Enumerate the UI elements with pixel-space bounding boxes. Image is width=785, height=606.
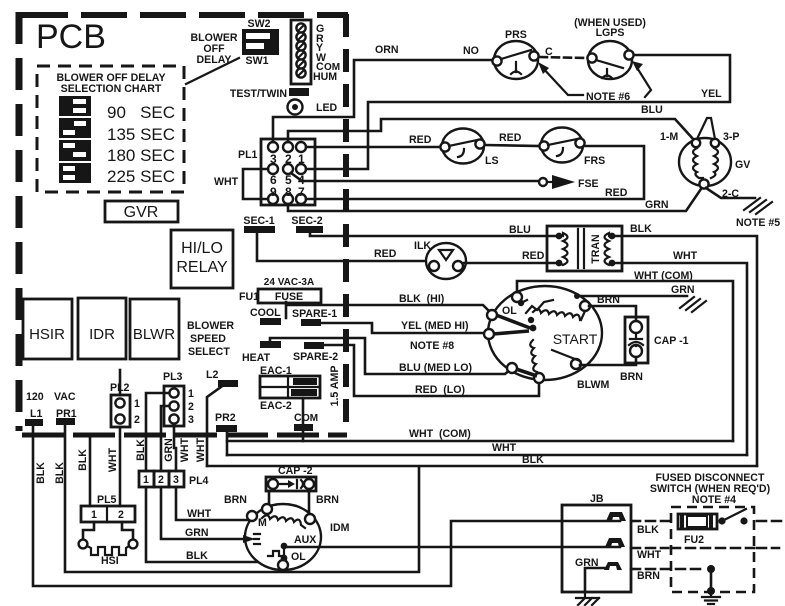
svg-text:HSI: HSI: [101, 555, 119, 567]
svg-text:BLU: BLU: [509, 224, 531, 236]
relay HSIR box: [23, 299, 72, 359]
dip switch 225: [59, 163, 91, 183]
svg-text:SW2: SW2: [248, 18, 271, 30]
chassis ground NOTE #5: [736, 198, 780, 229]
blower motor BLWM: [484, 286, 602, 383]
svg-text:LED: LED: [316, 102, 338, 114]
wire RED pin7 from FRS: [306, 146, 644, 199]
fuse FU2: [678, 514, 717, 546]
transformer TRAN: [547, 226, 622, 271]
wire BRN CAP-1 to motor: [580, 357, 636, 365]
svg-text:RED (LO): RED (LO): [415, 384, 465, 396]
wire BLK PL3-1 to PL4-1: [146, 393, 169, 471]
svg-text:HEAT: HEAT: [242, 352, 271, 364]
fused disconnect dashed box: [671, 507, 754, 592]
wire BRN CAP-2 right to IDM: [308, 491, 311, 515]
chart time labels: [107, 103, 175, 186]
svg-text:BLOWER: BLOWER: [187, 320, 234, 332]
wire BRN motor to CAP-1: [589, 306, 636, 322]
wire RED LS to FRS: [485, 145, 540, 146]
relay IDR box: [78, 298, 126, 359]
wire FSE pin5: [291, 173, 538, 181]
wire GRN motor frame to chassis ground: [577, 295, 687, 298]
dip switch 135: [59, 118, 91, 138]
wire YEL pin4 from LGPS: [306, 55, 730, 169]
wire BLK L2 to TRAN primary: [207, 465, 757, 468]
wire RED ILK to TRAN: [464, 262, 556, 265]
wire WHT PR2 to TRAN secondary: [227, 454, 747, 457]
svg-text:BLK: BLK: [77, 449, 89, 471]
svg-text:L1: L1: [30, 408, 42, 420]
svg-text:CAP -2: CAP -2: [278, 465, 313, 477]
svg-text:2: 2: [118, 509, 124, 521]
disconnect switch contacts: [718, 509, 747, 525]
svg-text:90 SEC: 90 SEC: [107, 103, 175, 122]
wire WHT (COM) motor to right nest: [517, 281, 733, 441]
svg-text:PL5: PL5: [97, 494, 117, 506]
svg-text:START: START: [553, 331, 598, 347]
svg-text:WHT (COM): WHT (COM): [409, 428, 471, 440]
terminal SEC-1: [243, 215, 275, 233]
svg-text:WHT: WHT: [673, 250, 698, 262]
terminal SPARE-1: [292, 308, 337, 326]
svg-text:SPEED: SPEED: [190, 333, 226, 345]
limit switch LS: [440, 129, 498, 168]
svg-text:3: 3: [188, 414, 194, 426]
svg-text:JB: JB: [590, 493, 604, 505]
cable clamp 1: [606, 512, 626, 521]
wire 2-C to chassis ground: [706, 188, 755, 198]
svg-text:WHT: WHT: [107, 447, 119, 472]
FSE sensor circle and arrow: [539, 175, 599, 190]
svg-text:WHT: WHT: [214, 176, 239, 188]
wire WHT TRAN secondary right nest: [616, 263, 747, 455]
LED: [288, 100, 338, 115]
thermostat terminal strip: [291, 20, 340, 84]
wire BRN CAP-2 left to IDM: [268, 491, 271, 506]
svg-text:BLK: BLK: [54, 462, 66, 484]
svg-text:PL3: PL3: [163, 371, 183, 383]
wire WHT (COM) bus line: [227, 440, 733, 443]
svg-text:FUSE: FUSE: [275, 291, 303, 303]
svg-text:WHT (COM): WHT (COM): [634, 270, 693, 282]
svg-text:BLK: BLK: [186, 550, 208, 562]
svg-text:135 SEC: 135 SEC: [107, 125, 175, 144]
svg-text:180 SEC: 180 SEC: [107, 146, 175, 165]
svg-text:RELAY: RELAY: [176, 259, 228, 276]
svg-text:3: 3: [270, 152, 277, 166]
svg-text:3: 3: [173, 474, 179, 486]
svg-text:SEC-1: SEC-1: [243, 215, 274, 227]
svg-text:TEST/TWIN: TEST/TWIN: [230, 88, 287, 100]
svg-text:WHT: WHT: [637, 549, 662, 561]
svg-text:FSE: FSE: [578, 178, 599, 190]
svg-text:PRS: PRS: [505, 29, 527, 41]
svg-text:TRAN: TRAN: [590, 234, 602, 263]
svg-text:SPARE-1: SPARE-1: [292, 308, 337, 320]
dashed wire PRS to LGPS: [540, 57, 586, 58]
svg-text:GRN: GRN: [671, 284, 695, 296]
wire BLU SEC-2 to TRAN: [310, 233, 556, 236]
svg-text:1: 1: [134, 398, 140, 410]
wire BLK dashed JB to FU2: [631, 520, 676, 523]
wire BLK PR1 down to BLK line: [65, 425, 419, 572]
svg-text:2: 2: [285, 152, 292, 166]
chassis ground below JB: [576, 592, 599, 605]
svg-text:2: 2: [158, 474, 164, 486]
svg-text:SW1: SW1: [246, 55, 269, 67]
svg-text:RED: RED: [499, 132, 522, 144]
svg-text:OL: OL: [291, 551, 306, 563]
svg-text:DELAY: DELAY: [197, 54, 232, 66]
svg-text:SELECT: SELECT: [188, 346, 230, 358]
svg-text:BLK: BLK: [35, 462, 47, 484]
svg-text:1-M: 1-M: [660, 131, 678, 143]
svg-text:PL1: PL1: [238, 149, 258, 161]
pointer line chart to SW1: [186, 58, 239, 84]
wire GRN pin8 to GV 2-C: [288, 186, 703, 211]
svg-text:WHT: WHT: [179, 437, 191, 462]
BRN ground stem: [702, 565, 720, 604]
svg-text:BLWM: BLWM: [577, 379, 610, 391]
svg-text:9: 9: [270, 185, 277, 199]
capacitor CAP-2: [266, 465, 316, 491]
svg-text:LGPS: LGPS: [596, 27, 625, 39]
connector PL1: [238, 139, 315, 205]
terminal SEC-2: [291, 215, 323, 233]
wire BLK dashed out right: [757, 520, 781, 523]
svg-text:NOTE #8: NOTE #8: [410, 340, 454, 352]
interlock switch ILK: [414, 240, 466, 279]
svg-text:BRN: BRN: [597, 294, 620, 306]
blower off delay selection chart dashed box: [37, 66, 184, 192]
switch SW2/SW1 block: [242, 18, 279, 67]
wire BLK bus to PL5 pin1: [89, 437, 92, 506]
svg-text:WHT: WHT: [195, 437, 207, 462]
wire BLK PL4-1 to IDM OL: [146, 487, 278, 562]
svg-text:IDM: IDM: [330, 522, 350, 534]
svg-text:RED: RED: [409, 134, 432, 146]
svg-text:1: 1: [298, 152, 305, 166]
inducer motor IDM: [243, 504, 321, 570]
svg-text:FRS: FRS: [584, 155, 605, 167]
capacitor CAP-1: [625, 317, 689, 363]
svg-text:ORN: ORN: [375, 44, 399, 56]
svg-text:1: 1: [143, 474, 149, 486]
svg-text:LS: LS: [485, 155, 499, 167]
terminal HEAT: [242, 341, 281, 364]
wire ORN pin3 to PRS: [273, 60, 492, 142]
svg-text:1.5 AMP: 1.5 AMP: [329, 366, 341, 407]
svg-text:225 SEC: 225 SEC: [107, 167, 175, 186]
svg-text:NOTE #6: NOTE #6: [586, 91, 630, 103]
svg-text:WHT: WHT: [492, 442, 517, 454]
svg-text:24 VAC-3A: 24 VAC-3A: [264, 277, 314, 288]
rollout switch FRS: [539, 128, 605, 168]
svg-text:OM: OM: [302, 413, 318, 424]
connector PL4: [139, 471, 209, 487]
svg-text:120: 120: [26, 391, 44, 403]
svg-text:BLU (MED LO): BLU (MED LO): [399, 362, 472, 374]
wire BLK TRAN primary right nest: [616, 236, 757, 466]
terminal PR1: [54, 391, 77, 425]
svg-text:RED: RED: [374, 248, 397, 260]
svg-text:BLK: BLK: [630, 223, 652, 235]
terminal COOL: [250, 307, 281, 325]
terminal PR2: [215, 412, 237, 455]
svg-text:NO: NO: [463, 45, 479, 57]
svg-text:IDR: IDR: [89, 326, 115, 343]
hot surface igniter HSI: [79, 522, 138, 567]
svg-text:BLK (HI): BLK (HI): [399, 293, 444, 305]
svg-text:7: 7: [298, 185, 305, 199]
svg-text:BLK: BLK: [135, 439, 147, 461]
TEST/TWIN terminal: [230, 88, 309, 100]
svg-text:FU1: FU1: [239, 291, 259, 303]
wire RED (LO) spare-2 to motor: [325, 345, 539, 396]
GVR relay box: [105, 201, 178, 222]
wire GRN PL3-2 to PL4-2: [161, 406, 169, 471]
svg-text:VAC: VAC: [54, 391, 76, 403]
fuse FU1: [239, 277, 321, 303]
svg-text:FU2: FU2: [684, 534, 704, 546]
connector PL3: [163, 371, 194, 426]
terminal Com: [294, 398, 318, 441]
svg-text:BRN: BRN: [637, 570, 660, 582]
svg-text:GV: GV: [735, 159, 750, 171]
wire WHT PL3-3 to PL4-3: [174, 424, 176, 471]
NOTE #6 pointers: [538, 61, 651, 103]
wire YEL (MED HI) spare-1 to motor: [321, 323, 484, 333]
pressure switch LGPS: [574, 17, 646, 79]
svg-text:BRN: BRN: [316, 494, 339, 506]
svg-text:GRN: GRN: [185, 527, 209, 539]
wire BRN dashed JB to ground: [631, 568, 704, 571]
gas valve GV: [660, 118, 750, 200]
dip switch 90: [59, 96, 91, 116]
svg-text:YEL: YEL: [701, 88, 722, 100]
svg-text:WHT: WHT: [187, 508, 212, 520]
wire WHT dashed through box: [631, 547, 779, 550]
wire BLU pin2 to GV 1-M: [288, 119, 694, 142]
svg-text:C: C: [294, 412, 302, 424]
svg-text:SELECTION CHART: SELECTION CHART: [61, 83, 162, 95]
svg-text:HSIR: HSIR: [29, 326, 65, 343]
PCB bottom dashed bus border: [22, 433, 347, 438]
svg-text:RED: RED: [522, 250, 545, 262]
cable clamp 2: [605, 538, 625, 547]
svg-text:GVR: GVR: [124, 204, 159, 221]
svg-text:NOTE #4: NOTE #4: [692, 494, 736, 506]
svg-text:HUM: HUM: [313, 71, 337, 83]
svg-text:PCB: PCB: [36, 18, 106, 56]
svg-text:AUX: AUX: [294, 534, 316, 546]
pressure switch PRS: [463, 29, 553, 79]
WHT bracket wire pins 6-9: [214, 169, 268, 199]
svg-text:8: 8: [285, 185, 292, 199]
svg-text:2: 2: [134, 414, 140, 426]
wire GRN PL4-2 to IDM ground: [161, 487, 242, 539]
svg-text:GRN: GRN: [645, 199, 669, 211]
wire RED SEC-1 to ILK: [257, 233, 427, 261]
PCB dashed border top: [22, 12, 348, 18]
chassis ground at BLWM: [680, 297, 706, 312]
svg-text:COOL: COOL: [250, 307, 281, 319]
relay HI/LO RELAY: [171, 230, 233, 288]
svg-text:2: 2: [188, 401, 194, 413]
svg-text:BLU: BLU: [641, 104, 663, 116]
wire RED pin1 to LS: [306, 146, 443, 149]
svg-text:BRN: BRN: [224, 494, 247, 506]
wire BLU (MED LO) heat to motor: [270, 338, 511, 374]
svg-text:HI/LO: HI/LO: [181, 240, 223, 257]
svg-text:BLK: BLK: [637, 524, 659, 536]
relay BLWR box: [130, 299, 179, 359]
PCB dashed border left: [16, 12, 23, 431]
svg-text:EAC-2: EAC-2: [260, 400, 292, 412]
svg-text:PR2: PR2: [215, 412, 236, 424]
svg-text:L2: L2: [206, 369, 218, 381]
svg-text:3-P: 3-P: [723, 131, 740, 143]
svg-text:RED: RED: [605, 187, 628, 199]
svg-text:YEL (MED HI): YEL (MED HI): [401, 320, 469, 332]
terminal L1: [25, 391, 44, 426]
PCB dashed border right: [343, 14, 349, 432]
connector PL2: [110, 370, 140, 506]
svg-text:OL: OL: [502, 305, 517, 317]
svg-text:CAP -1: CAP -1: [654, 335, 689, 347]
terminal L2: [206, 369, 238, 466]
svg-text:BRN: BRN: [620, 371, 643, 383]
svg-text:NOTE #5: NOTE #5: [736, 217, 780, 229]
wire WHT PL4-3 to IDM M: [176, 487, 248, 520]
dip switch 180: [59, 140, 91, 161]
svg-text:1: 1: [91, 509, 97, 521]
svg-text:SPARE-2: SPARE-2: [293, 351, 338, 363]
terminal SPARE-2: [293, 342, 338, 363]
wire WHT IDM aux to JB: [287, 546, 562, 549]
svg-text:SEC-2: SEC-2: [291, 215, 322, 227]
wire BLK L1 down to JB: [33, 426, 562, 586]
svg-text:PL4: PL4: [189, 475, 209, 487]
cable clamp 3: [604, 562, 622, 570]
junction box JB: [562, 493, 631, 592]
EAC terminal block: [260, 365, 320, 412]
svg-text:1: 1: [188, 388, 194, 400]
wire BLK (HI) fuse to blower motor: [286, 302, 491, 318]
svg-text:BLWR: BLWR: [133, 326, 175, 343]
connector PL5: [81, 494, 135, 522]
